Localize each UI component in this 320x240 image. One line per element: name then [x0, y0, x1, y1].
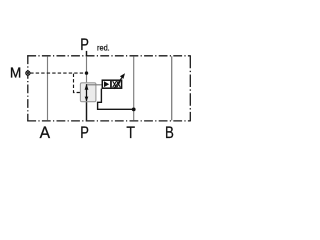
adjustment arrow	[114, 77, 123, 89]
relief valve flow cone	[104, 81, 109, 87]
relief valve seat bar	[110, 81, 112, 87]
sandwich-plate boundary (dash-dot enclosure)	[27, 55, 191, 57]
measuring port circle M	[26, 71, 30, 75]
svg-text:A: A	[40, 123, 51, 142]
svg-text:P: P	[80, 123, 89, 142]
svg-text:P: P	[80, 35, 89, 54]
wire P lower segment (valve to port P)	[86, 102, 88, 121]
junction M line / P red. line	[85, 71, 88, 74]
svg-text:red.: red.	[97, 43, 110, 53]
flow path double arrow in valve body	[86, 84, 88, 101]
relief valve spring	[113, 81, 117, 87]
svg-text:M: M	[10, 65, 21, 82]
reducing valve body (gray block)	[80, 83, 96, 102]
port line T	[133, 56, 135, 120]
wire P red. upper segment	[86, 56, 88, 83]
P red. port stub above boundary	[86, 51, 88, 56]
pilot relief valve U1 (box)	[102, 80, 121, 88]
svg-text:B: B	[165, 123, 174, 142]
drain wire from pilot valve to T	[98, 89, 134, 110]
wire to pilot relief valve	[87, 84, 103, 86]
svg-text:T: T	[126, 124, 135, 142]
measuring line M (dashed)	[30, 72, 86, 74]
pilot control line (dashed)	[74, 74, 81, 93]
port line B	[171, 56, 173, 120]
junction drain-T	[132, 107, 136, 111]
port line A	[47, 56, 49, 120]
